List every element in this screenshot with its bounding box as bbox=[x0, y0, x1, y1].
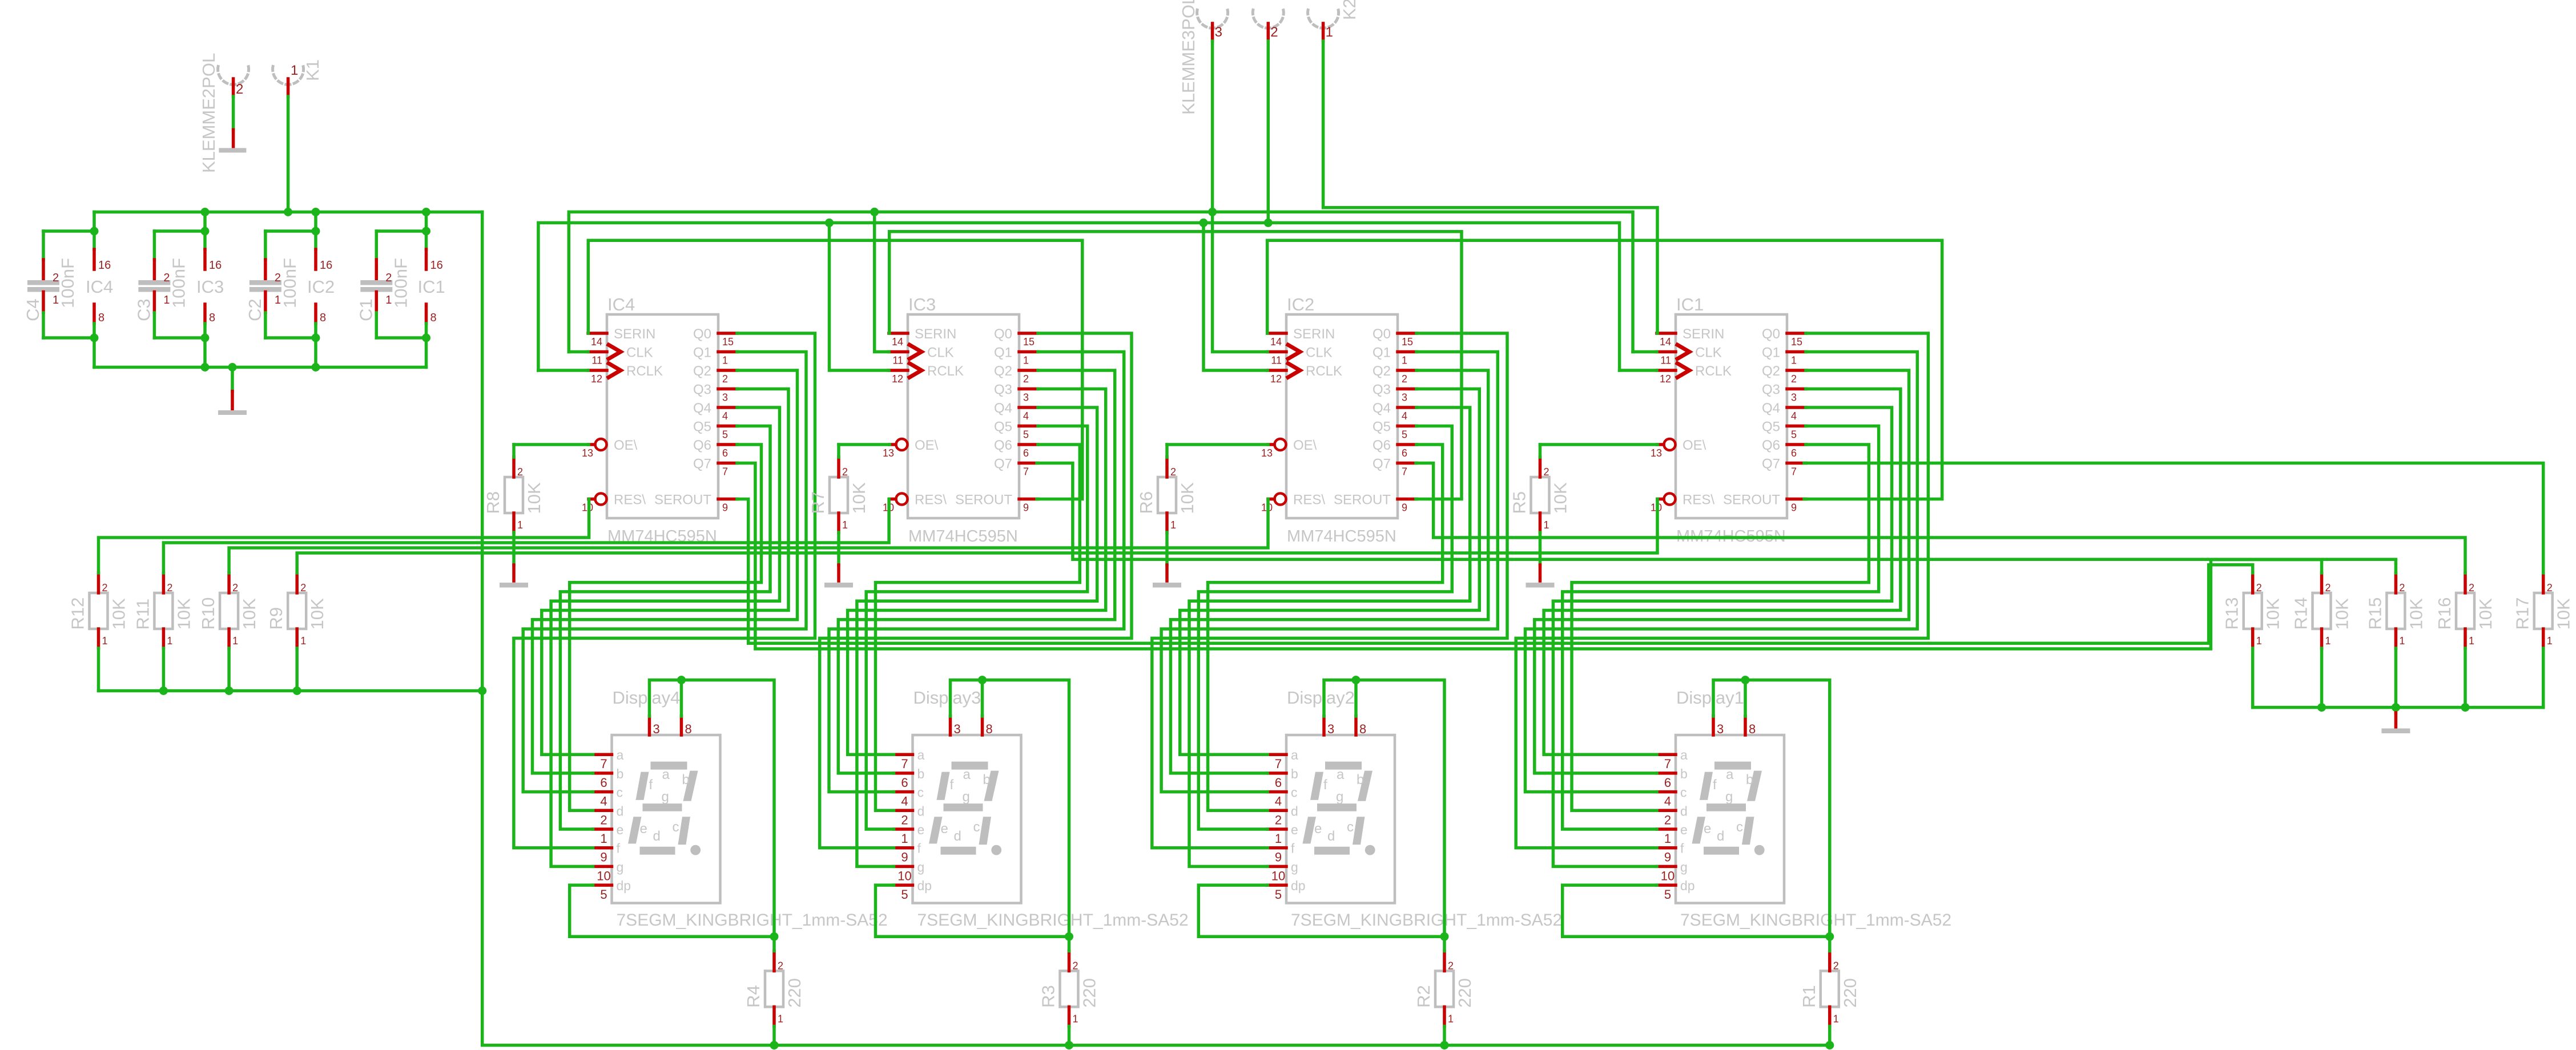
svg-text:3: 3 bbox=[653, 722, 660, 736]
svg-text:RCLK: RCLK bbox=[927, 364, 964, 379]
svg-text:b: b bbox=[917, 766, 925, 781]
svg-text:100nF: 100nF bbox=[168, 258, 188, 308]
svg-text:f: f bbox=[1291, 841, 1295, 856]
svg-text:Q1: Q1 bbox=[994, 345, 1012, 361]
svg-text:11: 11 bbox=[1660, 355, 1671, 366]
svg-text:2: 2 bbox=[2399, 582, 2405, 593]
svg-text:9: 9 bbox=[600, 850, 607, 865]
svg-text:Q7: Q7 bbox=[693, 457, 711, 472]
svg-text:6: 6 bbox=[901, 776, 908, 790]
svg-text:5: 5 bbox=[901, 887, 908, 902]
svg-text:SERIN: SERIN bbox=[614, 326, 655, 342]
svg-text:a: a bbox=[963, 767, 971, 782]
svg-text:2: 2 bbox=[1073, 960, 1078, 971]
svg-text:C3: C3 bbox=[134, 298, 154, 321]
svg-text:Q6: Q6 bbox=[994, 438, 1012, 453]
svg-text:SERIN: SERIN bbox=[1683, 326, 1724, 342]
svg-text:7: 7 bbox=[722, 466, 728, 478]
svg-text:9: 9 bbox=[901, 850, 908, 865]
svg-text:13: 13 bbox=[582, 447, 593, 459]
svg-text:10K: 10K bbox=[109, 598, 129, 629]
svg-text:2: 2 bbox=[1170, 466, 1176, 478]
svg-text:IC4: IC4 bbox=[607, 294, 635, 314]
svg-text:10: 10 bbox=[597, 869, 610, 883]
svg-text:a: a bbox=[1337, 767, 1345, 782]
svg-text:R12: R12 bbox=[68, 597, 88, 630]
svg-text:4: 4 bbox=[600, 794, 607, 809]
svg-text:2: 2 bbox=[236, 82, 243, 97]
svg-text:7: 7 bbox=[1402, 466, 1407, 478]
svg-text:16: 16 bbox=[209, 259, 222, 272]
svg-text:CLK: CLK bbox=[927, 345, 954, 361]
svg-text:7SEGM_KINGBRIGHT_1mm-SA52: 7SEGM_KINGBRIGHT_1mm-SA52 bbox=[617, 911, 888, 930]
svg-text:1: 1 bbox=[291, 63, 298, 78]
svg-text:K2: K2 bbox=[1339, 0, 1359, 20]
svg-text:11: 11 bbox=[892, 355, 903, 366]
svg-text:11: 11 bbox=[591, 355, 602, 366]
svg-text:1: 1 bbox=[1023, 355, 1029, 366]
svg-text:dp: dp bbox=[917, 878, 932, 893]
svg-text:4: 4 bbox=[1402, 410, 1407, 422]
svg-text:2: 2 bbox=[102, 582, 108, 593]
svg-text:1: 1 bbox=[842, 519, 848, 531]
svg-text:2: 2 bbox=[842, 466, 848, 478]
svg-text:9: 9 bbox=[1023, 502, 1029, 514]
svg-text:IC2: IC2 bbox=[1287, 294, 1314, 314]
svg-text:f: f bbox=[917, 841, 921, 856]
svg-text:10K: 10K bbox=[174, 598, 194, 629]
svg-text:10K: 10K bbox=[1551, 482, 1571, 514]
svg-text:5: 5 bbox=[1023, 429, 1029, 441]
svg-text:IC1: IC1 bbox=[418, 277, 445, 297]
svg-text:1: 1 bbox=[2256, 635, 2262, 647]
svg-text:16: 16 bbox=[98, 259, 111, 272]
svg-text:e: e bbox=[1314, 821, 1322, 837]
svg-text:Display3: Display3 bbox=[913, 688, 981, 708]
svg-text:R6: R6 bbox=[1136, 491, 1156, 514]
svg-text:1: 1 bbox=[1402, 355, 1407, 366]
svg-text:6: 6 bbox=[1791, 447, 1797, 459]
svg-text:220: 220 bbox=[784, 978, 804, 1008]
svg-text:f: f bbox=[950, 777, 954, 793]
svg-text:Q6: Q6 bbox=[693, 438, 711, 453]
svg-text:12: 12 bbox=[1660, 373, 1671, 385]
svg-text:Q6: Q6 bbox=[1372, 438, 1391, 453]
svg-text:Q7: Q7 bbox=[1372, 457, 1391, 472]
svg-text:dp: dp bbox=[1680, 878, 1695, 893]
svg-text:d: d bbox=[1327, 829, 1335, 844]
svg-text:1: 1 bbox=[1544, 519, 1549, 531]
svg-text:KLEMME2POL: KLEMME2POL bbox=[199, 53, 219, 173]
svg-text:a: a bbox=[617, 748, 624, 762]
svg-text:5: 5 bbox=[1275, 887, 1282, 902]
svg-text:8: 8 bbox=[1749, 722, 1756, 736]
svg-text:2: 2 bbox=[2256, 582, 2262, 593]
svg-text:R5: R5 bbox=[1510, 491, 1529, 514]
svg-text:8: 8 bbox=[685, 722, 692, 736]
svg-text:IC3: IC3 bbox=[908, 294, 936, 314]
svg-text:SEROUT: SEROUT bbox=[1334, 492, 1391, 508]
svg-text:g: g bbox=[662, 789, 669, 805]
svg-text:g: g bbox=[1291, 859, 1298, 874]
svg-text:2: 2 bbox=[232, 582, 238, 593]
svg-text:1: 1 bbox=[1833, 1013, 1839, 1024]
svg-text:1: 1 bbox=[2399, 635, 2405, 647]
svg-text:C2: C2 bbox=[245, 298, 265, 321]
svg-text:11: 11 bbox=[1271, 355, 1282, 366]
svg-text:b: b bbox=[682, 772, 690, 787]
svg-text:c: c bbox=[917, 785, 924, 800]
svg-text:1: 1 bbox=[102, 635, 108, 647]
svg-text:12: 12 bbox=[591, 373, 602, 385]
svg-text:5: 5 bbox=[600, 887, 607, 902]
svg-text:10K: 10K bbox=[849, 482, 869, 514]
svg-text:a: a bbox=[1680, 748, 1688, 762]
svg-text:9: 9 bbox=[1791, 502, 1797, 514]
svg-text:g: g bbox=[1680, 859, 1688, 874]
svg-text:4: 4 bbox=[1275, 794, 1282, 809]
svg-text:d: d bbox=[1291, 803, 1298, 818]
svg-text:15: 15 bbox=[1791, 336, 1802, 348]
svg-text:12: 12 bbox=[892, 373, 903, 385]
svg-text:3: 3 bbox=[722, 392, 728, 403]
svg-text:Q0: Q0 bbox=[994, 326, 1012, 342]
svg-text:10K: 10K bbox=[2332, 598, 2352, 629]
svg-text:R16: R16 bbox=[2434, 597, 2454, 630]
svg-text:b: b bbox=[1680, 766, 1688, 781]
svg-text:Q2: Q2 bbox=[994, 364, 1012, 379]
svg-text:d: d bbox=[1680, 803, 1688, 818]
svg-text:2: 2 bbox=[901, 813, 908, 827]
svg-text:3: 3 bbox=[1717, 722, 1724, 736]
svg-text:5: 5 bbox=[1402, 429, 1407, 441]
svg-text:2: 2 bbox=[517, 466, 523, 478]
svg-text:1: 1 bbox=[1664, 831, 1671, 846]
svg-text:Q1: Q1 bbox=[1762, 345, 1780, 361]
svg-text:3: 3 bbox=[1402, 392, 1407, 403]
svg-text:1: 1 bbox=[1170, 519, 1176, 531]
svg-text:C1: C1 bbox=[356, 298, 376, 321]
svg-text:6: 6 bbox=[1664, 776, 1671, 790]
svg-text:2: 2 bbox=[722, 373, 728, 385]
svg-text:R11: R11 bbox=[132, 599, 152, 630]
svg-text:R8: R8 bbox=[483, 491, 503, 514]
svg-text:5: 5 bbox=[722, 429, 728, 441]
svg-text:Q3: Q3 bbox=[1372, 382, 1391, 398]
svg-text:RES\: RES\ bbox=[614, 492, 646, 508]
svg-text:10K: 10K bbox=[2554, 598, 2574, 629]
svg-text:R2: R2 bbox=[1414, 985, 1434, 1008]
svg-text:d: d bbox=[954, 829, 961, 844]
svg-text:e: e bbox=[617, 822, 624, 837]
svg-text:10K: 10K bbox=[524, 482, 544, 514]
svg-text:Q4: Q4 bbox=[1762, 401, 1780, 416]
svg-text:1: 1 bbox=[901, 831, 908, 846]
svg-text:6: 6 bbox=[1402, 447, 1407, 459]
svg-text:1: 1 bbox=[722, 355, 728, 366]
svg-text:2: 2 bbox=[1791, 373, 1797, 385]
svg-text:R14: R14 bbox=[2291, 597, 2311, 630]
svg-text:9: 9 bbox=[1275, 850, 1282, 865]
svg-text:IC2: IC2 bbox=[307, 277, 335, 297]
svg-text:g: g bbox=[917, 859, 925, 874]
svg-text:Q7: Q7 bbox=[1762, 457, 1780, 472]
svg-text:Q5: Q5 bbox=[1372, 419, 1391, 435]
svg-text:a: a bbox=[917, 748, 925, 762]
svg-text:1: 1 bbox=[167, 635, 172, 647]
svg-text:R10: R10 bbox=[198, 597, 218, 630]
svg-text:OE\: OE\ bbox=[1293, 438, 1317, 453]
svg-text:6: 6 bbox=[600, 776, 607, 790]
svg-text:8: 8 bbox=[320, 312, 326, 324]
svg-text:b: b bbox=[1357, 772, 1364, 787]
svg-text:c: c bbox=[1291, 785, 1298, 800]
svg-text:Display1: Display1 bbox=[1676, 688, 1744, 708]
svg-text:OE\: OE\ bbox=[614, 438, 638, 453]
svg-text:RES\: RES\ bbox=[1683, 492, 1714, 508]
svg-text:1: 1 bbox=[778, 1013, 783, 1024]
svg-text:5: 5 bbox=[1664, 887, 1671, 902]
svg-text:Q1: Q1 bbox=[1372, 345, 1391, 361]
svg-text:2: 2 bbox=[1402, 373, 1407, 385]
svg-text:d: d bbox=[1717, 829, 1724, 844]
svg-text:1: 1 bbox=[517, 519, 523, 531]
svg-text:Q4: Q4 bbox=[693, 401, 711, 416]
svg-text:15: 15 bbox=[1023, 336, 1035, 348]
svg-text:2: 2 bbox=[300, 582, 306, 593]
svg-text:Q5: Q5 bbox=[994, 419, 1012, 435]
svg-text:g: g bbox=[1725, 789, 1733, 805]
svg-text:Q4: Q4 bbox=[1372, 401, 1391, 416]
svg-text:9: 9 bbox=[1402, 502, 1407, 514]
svg-text:R13: R13 bbox=[2222, 597, 2242, 630]
svg-text:2: 2 bbox=[1023, 373, 1029, 385]
svg-text:16: 16 bbox=[430, 259, 443, 272]
svg-text:10K: 10K bbox=[239, 598, 259, 629]
svg-text:16: 16 bbox=[320, 259, 332, 272]
svg-text:e: e bbox=[1704, 821, 1711, 837]
svg-text:MM74HC595N: MM74HC595N bbox=[908, 527, 1018, 546]
svg-text:1: 1 bbox=[1073, 1013, 1078, 1024]
svg-text:Q3: Q3 bbox=[994, 382, 1012, 398]
svg-text:Q4: Q4 bbox=[994, 401, 1012, 416]
svg-text:220: 220 bbox=[1840, 978, 1860, 1008]
svg-text:13: 13 bbox=[883, 447, 894, 459]
svg-text:SEROUT: SEROUT bbox=[955, 492, 1012, 508]
svg-text:2: 2 bbox=[778, 960, 783, 971]
svg-text:2: 2 bbox=[2469, 582, 2474, 593]
svg-text:SEROUT: SEROUT bbox=[654, 492, 711, 508]
svg-text:Q2: Q2 bbox=[1372, 364, 1391, 379]
svg-text:SEROUT: SEROUT bbox=[1723, 492, 1780, 508]
svg-text:100nF: 100nF bbox=[391, 258, 410, 308]
svg-text:3: 3 bbox=[1327, 722, 1334, 736]
svg-text:e: e bbox=[640, 821, 647, 837]
svg-text:g: g bbox=[963, 789, 970, 805]
svg-text:220: 220 bbox=[1455, 978, 1475, 1008]
svg-text:7: 7 bbox=[1664, 757, 1671, 771]
svg-text:14: 14 bbox=[591, 336, 602, 348]
svg-text:7: 7 bbox=[1791, 466, 1797, 478]
svg-text:C4: C4 bbox=[23, 298, 43, 321]
svg-text:1: 1 bbox=[300, 635, 306, 647]
svg-text:6: 6 bbox=[722, 447, 728, 459]
svg-text:7SEGM_KINGBRIGHT_1mm-SA52: 7SEGM_KINGBRIGHT_1mm-SA52 bbox=[1291, 911, 1562, 930]
svg-text:12: 12 bbox=[1270, 373, 1282, 385]
svg-text:1: 1 bbox=[1275, 831, 1282, 846]
svg-text:14: 14 bbox=[892, 336, 903, 348]
svg-text:1: 1 bbox=[232, 635, 238, 647]
svg-text:f: f bbox=[1680, 841, 1684, 856]
svg-text:e: e bbox=[1291, 822, 1298, 837]
svg-text:Q0: Q0 bbox=[1372, 326, 1391, 342]
svg-text:OE\: OE\ bbox=[1683, 438, 1706, 453]
svg-text:5: 5 bbox=[1791, 429, 1797, 441]
svg-text:4: 4 bbox=[1664, 794, 1671, 809]
svg-text:3: 3 bbox=[1791, 392, 1797, 403]
svg-text:15: 15 bbox=[722, 336, 734, 348]
svg-text:RCLK: RCLK bbox=[626, 364, 663, 379]
svg-text:7: 7 bbox=[1275, 757, 1282, 771]
svg-text:IC1: IC1 bbox=[1676, 294, 1704, 314]
svg-text:f: f bbox=[617, 841, 621, 856]
svg-text:220: 220 bbox=[1080, 978, 1100, 1008]
svg-text:a: a bbox=[1291, 748, 1298, 762]
svg-text:2: 2 bbox=[1544, 466, 1549, 478]
svg-text:K1: K1 bbox=[303, 59, 323, 81]
svg-text:9: 9 bbox=[722, 502, 728, 514]
svg-text:Q2: Q2 bbox=[1762, 364, 1780, 379]
svg-text:8: 8 bbox=[430, 312, 437, 324]
svg-text:c: c bbox=[1680, 785, 1687, 800]
svg-text:c: c bbox=[973, 819, 980, 835]
svg-text:b: b bbox=[617, 766, 624, 781]
svg-text:100nF: 100nF bbox=[58, 258, 78, 308]
svg-text:1: 1 bbox=[2547, 635, 2553, 647]
svg-text:2: 2 bbox=[1275, 813, 1282, 827]
svg-text:RES\: RES\ bbox=[1293, 492, 1325, 508]
svg-text:2: 2 bbox=[1270, 25, 1278, 40]
svg-text:Q0: Q0 bbox=[1762, 326, 1780, 342]
svg-text:d: d bbox=[653, 829, 661, 844]
svg-text:CLK: CLK bbox=[626, 345, 653, 361]
svg-text:R4: R4 bbox=[743, 985, 763, 1008]
svg-text:RCLK: RCLK bbox=[1695, 364, 1732, 379]
svg-text:14: 14 bbox=[1270, 336, 1282, 348]
svg-text:10K: 10K bbox=[2263, 598, 2283, 629]
svg-text:c: c bbox=[1347, 819, 1354, 835]
svg-text:13: 13 bbox=[1261, 447, 1273, 459]
svg-text:15: 15 bbox=[1402, 336, 1413, 348]
svg-text:Display4: Display4 bbox=[613, 688, 681, 708]
svg-text:10: 10 bbox=[1661, 869, 1675, 883]
svg-text:RES\: RES\ bbox=[915, 492, 947, 508]
svg-text:R15: R15 bbox=[2365, 597, 2385, 630]
svg-text:dp: dp bbox=[617, 878, 631, 893]
svg-text:8: 8 bbox=[98, 312, 104, 324]
svg-text:Q5: Q5 bbox=[693, 419, 711, 435]
svg-text:1: 1 bbox=[2325, 635, 2331, 647]
svg-text:R17: R17 bbox=[2513, 597, 2533, 630]
svg-text:3: 3 bbox=[1023, 392, 1029, 403]
svg-text:10: 10 bbox=[897, 869, 911, 883]
svg-text:a: a bbox=[1726, 767, 1734, 782]
svg-text:4: 4 bbox=[1023, 410, 1029, 422]
svg-text:g: g bbox=[1336, 789, 1343, 805]
svg-text:7: 7 bbox=[901, 757, 908, 771]
svg-text:2: 2 bbox=[1833, 960, 1839, 971]
svg-text:1: 1 bbox=[1326, 25, 1333, 40]
svg-text:f: f bbox=[649, 777, 653, 793]
svg-text:b: b bbox=[1746, 772, 1753, 787]
svg-text:e: e bbox=[1680, 822, 1688, 837]
svg-text:13: 13 bbox=[1651, 447, 1662, 459]
svg-text:7: 7 bbox=[600, 757, 607, 771]
svg-text:Q1: Q1 bbox=[693, 345, 711, 361]
svg-text:g: g bbox=[617, 859, 624, 874]
svg-text:f: f bbox=[1713, 777, 1717, 793]
svg-text:4: 4 bbox=[1791, 410, 1797, 422]
svg-text:1: 1 bbox=[1448, 1013, 1454, 1024]
svg-text:MM74HC595N: MM74HC595N bbox=[1287, 527, 1396, 546]
svg-text:CLK: CLK bbox=[1306, 345, 1333, 361]
svg-text:IC4: IC4 bbox=[86, 277, 113, 297]
svg-text:Q3: Q3 bbox=[1762, 382, 1780, 398]
svg-text:Q7: Q7 bbox=[994, 457, 1012, 472]
svg-text:e: e bbox=[941, 821, 948, 837]
svg-text:10K: 10K bbox=[2476, 598, 2495, 629]
svg-text:Q3: Q3 bbox=[693, 382, 711, 398]
svg-text:4: 4 bbox=[722, 410, 728, 422]
svg-text:e: e bbox=[917, 822, 925, 837]
svg-text:Display2: Display2 bbox=[1287, 688, 1355, 708]
svg-text:2: 2 bbox=[167, 582, 172, 593]
svg-text:6: 6 bbox=[1023, 447, 1029, 459]
svg-text:100nF: 100nF bbox=[280, 258, 300, 308]
svg-text:2: 2 bbox=[600, 813, 607, 827]
svg-text:8: 8 bbox=[986, 722, 993, 736]
svg-text:d: d bbox=[917, 803, 925, 818]
svg-text:Q0: Q0 bbox=[693, 326, 711, 342]
svg-text:1: 1 bbox=[2469, 635, 2474, 647]
svg-text:Q6: Q6 bbox=[1762, 438, 1780, 453]
svg-text:9: 9 bbox=[1664, 850, 1671, 865]
svg-text:KLEMME3POL: KLEMME3POL bbox=[1178, 0, 1198, 115]
svg-text:c: c bbox=[617, 785, 623, 800]
svg-text:10K: 10K bbox=[307, 598, 327, 629]
svg-text:2: 2 bbox=[2547, 582, 2553, 593]
svg-text:OE\: OE\ bbox=[915, 438, 939, 453]
svg-text:7SEGM_KINGBRIGHT_1mm-SA52: 7SEGM_KINGBRIGHT_1mm-SA52 bbox=[917, 911, 1189, 930]
svg-text:2: 2 bbox=[2325, 582, 2331, 593]
svg-text:IC3: IC3 bbox=[196, 277, 224, 297]
svg-text:3: 3 bbox=[1215, 25, 1222, 40]
svg-text:8: 8 bbox=[209, 312, 215, 324]
svg-text:7SEGM_KINGBRIGHT_1mm-SA52: 7SEGM_KINGBRIGHT_1mm-SA52 bbox=[1680, 911, 1951, 930]
svg-text:Q5: Q5 bbox=[1762, 419, 1780, 435]
svg-text:3: 3 bbox=[954, 722, 961, 736]
svg-text:4: 4 bbox=[901, 794, 908, 809]
svg-text:10K: 10K bbox=[1177, 482, 1197, 514]
svg-text:R1: R1 bbox=[1799, 985, 1819, 1008]
svg-text:R9: R9 bbox=[266, 607, 286, 630]
svg-text:d: d bbox=[617, 803, 624, 818]
svg-text:Q2: Q2 bbox=[693, 364, 711, 379]
svg-text:10: 10 bbox=[1271, 869, 1285, 883]
svg-text:6: 6 bbox=[1275, 776, 1282, 790]
svg-text:dp: dp bbox=[1291, 878, 1306, 893]
svg-text:1: 1 bbox=[600, 831, 607, 846]
